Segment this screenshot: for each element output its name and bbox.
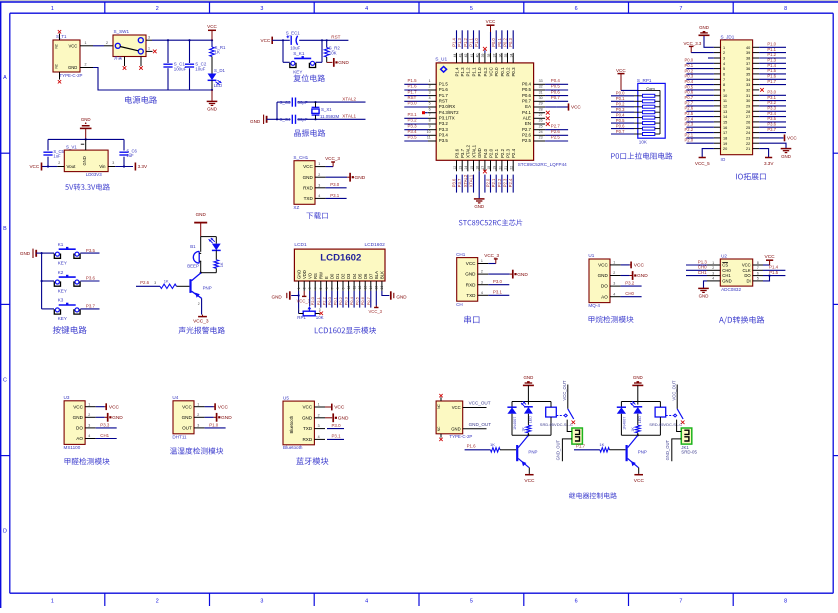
- svg-text:3: 3: [318, 183, 320, 187]
- svg-text:D7: D7: [368, 273, 373, 279]
- U2 pin4 GND: [704, 281, 708, 288]
- svg-text:18: 18: [723, 137, 727, 141]
- svg-text:U5: U5: [283, 395, 289, 400]
- svg-text:B: B: [3, 226, 7, 232]
- svg-text:P1.5: P1.5: [769, 270, 779, 275]
- svg-text:1K: 1K: [631, 427, 635, 432]
- svg-text:TXD: TXD: [303, 426, 313, 431]
- svg-text:P0.6: P0.6: [551, 89, 561, 94]
- svg-text:3: 3: [723, 57, 725, 61]
- power port GND: [107, 413, 109, 422]
- svg-text:P1.5: P1.5: [408, 78, 418, 83]
- svg-text:1: 1: [613, 261, 615, 265]
- svg-text:21: 21: [504, 166, 508, 170]
- svg-text:33: 33: [746, 83, 750, 87]
- svg-text:2: 2: [429, 85, 431, 89]
- svg-text:7: 7: [757, 266, 759, 270]
- label alarm: [179, 327, 225, 334]
- wire top XTAL2: [277, 101, 291, 103]
- svg-text:3: 3: [148, 35, 150, 39]
- svg-text:VCC_OUT: VCC_OUT: [562, 380, 567, 400]
- svg-text:10K: 10K: [639, 139, 648, 144]
- svg-text:P1.2: P1.2: [767, 52, 776, 57]
- svg-text:BLA: BLA: [374, 271, 379, 279]
- svg-text:P0.7: P0.7: [522, 99, 532, 104]
- svg-text:P3.1: P3.1: [408, 112, 418, 117]
- svg-text:P3.4: P3.4: [408, 129, 418, 134]
- svg-text:2: 2: [197, 413, 199, 417]
- net P3.3: [96, 427, 117, 429]
- svg-text:3: 3: [88, 424, 90, 428]
- svg-text:P3.4: P3.4: [439, 133, 449, 138]
- svg-text:P2.0: P2.0: [488, 148, 493, 158]
- svg-text:8: 8: [784, 6, 787, 12]
- svg-text:ADC0832: ADC0832: [721, 287, 741, 292]
- svg-text:VCC: VCC: [182, 404, 192, 409]
- JD1 pin3 stub: [708, 57, 714, 59]
- T1 top pin: [59, 34, 61, 41]
- svg-text:7: 7: [330, 287, 334, 289]
- svg-text:3: 3: [260, 6, 263, 12]
- LED branch (alarm): [215, 237, 217, 244]
- svg-text:P1.2: P1.2: [466, 67, 471, 77]
- U2 pin3 net CH1: [686, 275, 707, 277]
- svg-text:P2.7: P2.7: [685, 100, 694, 105]
- svg-text:GND: GND: [633, 375, 643, 380]
- svg-text:1: 1: [148, 47, 150, 51]
- svg-text:P3.0: P3.0: [332, 423, 342, 428]
- svg-text:3: 3: [319, 308, 321, 312]
- svg-text:P2.7: P2.7: [522, 127, 532, 132]
- power port GND (relay): [632, 384, 643, 386]
- T1 pin2 GND wire: [80, 67, 93, 69]
- JD1 pin23 to VCC: [759, 137, 783, 139]
- svg-text:9: 9: [723, 89, 725, 93]
- JD1 pin32 no-ERC: [760, 88, 764, 92]
- svg-text:VCC: VCC: [634, 263, 645, 269]
- svg-text:VCC: VCC: [302, 405, 312, 410]
- switch S_SW1: [113, 35, 146, 57]
- svg-text:P1.7: P1.7: [576, 444, 586, 449]
- svg-text:20: 20: [498, 166, 502, 170]
- svg-text:LED: LED: [529, 416, 533, 424]
- svg-text:P3.1: P3.1: [493, 290, 503, 295]
- svg-text:P0.0: P0.0: [327, 296, 332, 305]
- power port VCC (pin 38): [487, 24, 495, 26]
- svg-text:29: 29: [539, 102, 543, 106]
- svg-text:VCC_OUT: VCC_OUT: [469, 401, 491, 406]
- svg-text:CH1: CH1: [456, 252, 466, 257]
- sensor U1 MQ-4 methane: [589, 259, 610, 303]
- svg-text:VCC: VCC: [261, 38, 271, 43]
- svg-text:K2: K2: [58, 270, 64, 275]
- svg-text:GND: GND: [598, 273, 609, 278]
- svg-text:29: 29: [746, 105, 750, 109]
- svg-text:41: 41: [470, 54, 474, 58]
- svg-text:11: 11: [723, 99, 727, 103]
- svg-text:P3.1: P3.1: [332, 434, 342, 439]
- svg-text:GND: GND: [296, 270, 301, 279]
- svg-text:C: C: [3, 377, 7, 383]
- svg-text:40: 40: [476, 54, 480, 58]
- svg-text:1uF: 1uF: [126, 153, 134, 158]
- wire to K1: [42, 252, 54, 254]
- svg-text:2: 2: [156, 6, 159, 12]
- diode 1N4007: [511, 402, 513, 408]
- svg-text:P2.2: P2.2: [497, 178, 502, 187]
- svg-text:S_K1: S_K1: [293, 51, 305, 56]
- svg-text:P0.6: P0.6: [522, 93, 532, 98]
- svg-text:6: 6: [429, 107, 431, 111]
- net P3.0: [488, 284, 509, 286]
- capacitor S_C3 30pF: [291, 98, 293, 107]
- svg-text:P3.7: P3.7: [767, 127, 776, 132]
- power port GND (JD1 top): [699, 34, 710, 36]
- svg-text:3: 3: [154, 281, 156, 285]
- svg-text:9: 9: [341, 287, 345, 289]
- svg-text:4: 4: [365, 599, 368, 605]
- svg-text:XTAL1: XTAL1: [471, 144, 476, 158]
- svg-text:RXD: RXD: [466, 282, 476, 287]
- svg-text:10K: 10K: [316, 315, 324, 320]
- power port GND (pin 16): [474, 198, 485, 200]
- svg-text:P3.5: P3.5: [439, 138, 449, 143]
- svg-text:P3.0: P3.0: [493, 279, 503, 284]
- svg-text:P3.1/TX: P3.1/TX: [439, 116, 455, 121]
- svg-text:SRD-05VDC-SL-C: SRD-05VDC-SL-C: [540, 422, 573, 427]
- connector JK (relay output): [681, 428, 692, 444]
- svg-text:P3.1: P3.1: [330, 193, 340, 198]
- svg-text:44: 44: [453, 54, 457, 58]
- svg-text:VCC: VCC: [524, 478, 535, 484]
- svg-text:P3.2: P3.2: [625, 281, 635, 286]
- net GND_OUT: [463, 428, 487, 430]
- svg-text:VCC: VCC: [207, 24, 217, 29]
- svg-text:P0.5: P0.5: [616, 118, 625, 123]
- sensor U4 DHT11 temperature humidity: [173, 401, 194, 434]
- svg-text:P1.4: P1.4: [769, 265, 779, 270]
- label AD conversion: [719, 316, 764, 324]
- svg-text:P1.4: P1.4: [452, 38, 457, 47]
- svg-text:2: 2: [613, 271, 615, 275]
- power port GND: [632, 271, 634, 280]
- svg-text:XTAL2: XTAL2: [466, 144, 471, 158]
- svg-text:27: 27: [539, 113, 543, 117]
- svg-text:4: 4: [365, 6, 368, 12]
- base resistor 1K (relay): [465, 449, 491, 451]
- svg-text:PNP: PNP: [638, 450, 647, 455]
- JD1 pin1 to GND: [704, 35, 714, 47]
- net P1.0: [205, 427, 226, 429]
- svg-text:GND: GND: [338, 416, 349, 422]
- svg-text:P3.5: P3.5: [767, 116, 776, 121]
- svg-text:P2.0: P2.0: [685, 138, 694, 143]
- svg-text:13: 13: [723, 110, 727, 114]
- svg-text:4: 4: [88, 434, 90, 438]
- svg-text:25: 25: [539, 124, 543, 128]
- svg-text:3: 3: [481, 280, 483, 284]
- svg-text:P4.2: P4.2: [483, 67, 488, 77]
- svg-text:S_C1: S_C1: [174, 61, 186, 66]
- JD1 pin21 to 3.3V: [759, 149, 768, 158]
- svg-text:22: 22: [746, 142, 750, 146]
- crystal S_X1 11.0592M: [312, 106, 320, 108]
- svg-text:B1: B1: [190, 244, 196, 249]
- svg-text:P1.5: P1.5: [767, 68, 776, 73]
- svg-text:11.0592M: 11.0592M: [320, 114, 340, 119]
- power port 3.3V: [134, 163, 136, 171]
- resistor S_R1 1K: [211, 39, 213, 41]
- sensor U3 MS1100 formaldehyde: [64, 401, 85, 445]
- svg-text:1: 1: [197, 402, 199, 406]
- svg-text:P0.2: P0.2: [503, 38, 508, 47]
- svg-text:P2.4: P2.4: [685, 116, 694, 121]
- svg-text:VCC: VCC: [765, 254, 776, 260]
- svg-text:1: 1: [481, 259, 483, 263]
- svg-text:37: 37: [746, 62, 750, 66]
- connector CH1 serial: [457, 258, 478, 302]
- relay coil SRD-05VDC-SL-C: [546, 407, 557, 417]
- label P0 pullup: [611, 152, 672, 159]
- svg-text:CH: CH: [456, 302, 463, 307]
- net CH1: [96, 438, 117, 440]
- svg-text:2: 2: [303, 287, 307, 289]
- svg-text:NC: NC: [437, 426, 441, 431]
- svg-text:10: 10: [347, 286, 351, 290]
- svg-text:5: 5: [757, 277, 759, 281]
- svg-text:5: 5: [319, 287, 323, 289]
- alarm top rail: [201, 236, 217, 238]
- svg-text:ALE: ALE: [523, 116, 531, 121]
- svg-text:6: 6: [757, 271, 759, 275]
- LED (relay): [637, 402, 639, 405]
- svg-text:GND: GND: [699, 294, 709, 299]
- svg-text:SRD-05VDC-SL-C: SRD-05VDC-SL-C: [649, 422, 682, 427]
- svg-text:BEEP: BEEP: [187, 264, 199, 269]
- svg-text:CH0: CH0: [722, 268, 731, 273]
- wire to K2: [42, 280, 54, 282]
- svg-text:P1.6: P1.6: [467, 444, 477, 449]
- alarm bottom rail: [201, 272, 217, 274]
- svg-text:D2: D2: [341, 273, 346, 279]
- svg-text:P0.3: P0.3: [511, 67, 516, 77]
- svg-text:14: 14: [369, 286, 373, 290]
- base resistor 1K (alarm): [136, 285, 160, 287]
- svg-text:17: 17: [723, 131, 727, 135]
- svg-text:P3.7: P3.7: [460, 148, 465, 158]
- svg-text:P1.3: P1.3: [457, 38, 462, 47]
- svg-text:P0.1: P0.1: [497, 38, 502, 47]
- U2 pin7 net P1.4: [763, 269, 785, 271]
- svg-text:1: 1: [297, 287, 301, 289]
- svg-text:P0.1: P0.1: [685, 63, 694, 68]
- RP1 resistor P0.1: [611, 100, 634, 102]
- net P3.1: [488, 294, 509, 296]
- switch S_K1: [290, 63, 296, 68]
- wire VCC to RST: [283, 39, 290, 41]
- power port GND: [211, 90, 213, 101]
- svg-text:GND: GND: [20, 251, 31, 256]
- svg-text:PNP: PNP: [203, 286, 212, 291]
- svg-text:P3.4: P3.4: [767, 111, 776, 116]
- svg-text:1N4007: 1N4007: [513, 417, 517, 430]
- svg-text:XTAL1: XTAL1: [342, 114, 356, 119]
- svg-text:7: 7: [679, 6, 682, 12]
- svg-text:1K: 1K: [599, 442, 604, 447]
- svg-text:MS1100: MS1100: [64, 445, 81, 450]
- svg-text:GND: GND: [355, 175, 366, 181]
- svg-text:RST: RST: [331, 35, 340, 40]
- svg-text:10: 10: [723, 94, 727, 98]
- T1 pin1 to switch wire: [80, 45, 93, 47]
- label methane module: [589, 316, 634, 323]
- emitter wire to VCC (relay): [637, 467, 639, 469]
- svg-text:P0.2: P0.2: [338, 296, 343, 305]
- svg-text:RST: RST: [408, 95, 417, 100]
- svg-text:LCD1: LCD1: [294, 242, 307, 248]
- label relay control: [569, 492, 617, 498]
- svg-text:11: 11: [427, 136, 431, 140]
- svg-text:CH0: CH0: [698, 265, 707, 270]
- svg-text:P3.3: P3.3: [767, 106, 776, 111]
- svg-text:VCC: VCC: [29, 164, 39, 169]
- svg-text:P1.3: P1.3: [698, 259, 708, 264]
- svg-text:SRD-05: SRD-05: [681, 450, 697, 455]
- relay top rail: [621, 401, 660, 403]
- svg-text:U4: U4: [172, 395, 178, 400]
- svg-text:P1.4: P1.4: [454, 67, 459, 77]
- svg-text:1: 1: [51, 6, 54, 12]
- svg-text:4: 4: [613, 292, 615, 296]
- svg-text:LD03V3: LD03V3: [86, 172, 102, 177]
- capacitor S_C2 10uF: [188, 39, 190, 41]
- svg-text:VCC: VCC: [68, 43, 77, 48]
- svg-text:TXD: TXD: [466, 293, 476, 298]
- label LCD1602 module: [315, 327, 376, 334]
- svg-text:P2.3: P2.3: [505, 148, 510, 158]
- power port VCC: [105, 403, 107, 410]
- power port VCC: [214, 403, 216, 410]
- svg-text:4: 4: [318, 194, 320, 198]
- svg-text:P1.1: P1.1: [767, 47, 776, 52]
- svg-text:GND_OUT: GND_OUT: [665, 439, 670, 460]
- svg-text:16: 16: [476, 166, 480, 170]
- svg-text:P2.0: P2.0: [310, 296, 315, 305]
- svg-text:VCC_3: VCC_3: [369, 309, 383, 314]
- svg-text:CH1: CH1: [100, 433, 109, 438]
- SW1 pin1 no-connect: [146, 50, 153, 52]
- RP1 resistor P0.4: [611, 117, 634, 119]
- svg-text:KEY: KEY: [58, 288, 67, 293]
- connector TYPE-C-2P (relay power): [436, 401, 463, 434]
- svg-text:32: 32: [746, 89, 750, 93]
- net CH0: [621, 296, 642, 298]
- label dianyuandianlu: [125, 96, 157, 104]
- svg-text:P3.0: P3.0: [330, 182, 340, 187]
- label chuankou: [464, 316, 479, 324]
- svg-text:P1.0: P1.0: [474, 38, 479, 47]
- label formaldehyde module: [65, 458, 110, 465]
- svg-text:P3.6: P3.6: [452, 178, 457, 187]
- svg-text:GND: GND: [68, 65, 77, 70]
- svg-text:S_C2: S_C2: [195, 61, 207, 66]
- svg-text:6: 6: [575, 6, 578, 12]
- connector S_CH1 download port: [294, 161, 315, 205]
- svg-text:MQ-4: MQ-4: [588, 303, 600, 308]
- capacitor S_EC1 10uF (across key): [290, 36, 292, 45]
- svg-text:GND: GND: [524, 375, 534, 380]
- svg-text:GND: GND: [465, 272, 476, 277]
- svg-text:GND: GND: [517, 272, 528, 278]
- resistor 1K (relay led): [526, 425, 531, 433]
- svg-text:VCC: VCC: [466, 261, 476, 266]
- svg-text:XTAL1: XTAL1: [469, 174, 474, 187]
- svg-text:8: 8: [784, 599, 787, 605]
- net P3.2: [621, 285, 642, 287]
- svg-text:P2.1: P2.1: [494, 148, 499, 158]
- svg-text:P2.1: P2.1: [685, 132, 694, 137]
- svg-text:P0.6: P0.6: [685, 90, 694, 95]
- wire to K3: [42, 308, 54, 310]
- svg-text:P0.1: P0.1: [500, 67, 505, 77]
- svg-text:P1.4: P1.4: [767, 63, 776, 68]
- svg-text:4: 4: [481, 291, 483, 295]
- module U5 Bluetooth: [283, 401, 314, 445]
- svg-text:4: 4: [318, 435, 320, 439]
- regulator S_V1 LD03V3: [64, 150, 108, 172]
- svg-text:P3.6: P3.6: [454, 148, 459, 158]
- wire Vout: [42, 166, 58, 168]
- svg-text:1uF: 1uF: [53, 154, 61, 159]
- svg-text:4: 4: [712, 277, 714, 281]
- svg-text:P2.2: P2.2: [321, 296, 326, 305]
- svg-text:12: 12: [453, 166, 457, 170]
- svg-text:AO: AO: [601, 294, 608, 299]
- svg-text:33: 33: [539, 79, 543, 83]
- svg-text:28: 28: [746, 110, 750, 114]
- svg-text:CS: CS: [722, 263, 728, 268]
- svg-text:P0.7: P0.7: [616, 129, 625, 134]
- svg-text:4: 4: [429, 96, 431, 100]
- svg-text:GND: GND: [474, 204, 484, 209]
- svg-text:1: 1: [318, 162, 320, 166]
- svg-text:32: 32: [539, 85, 543, 89]
- wire Vin: [108, 166, 115, 168]
- svg-text:P2.6: P2.6: [685, 106, 694, 111]
- net VCC_OUT: [463, 407, 487, 409]
- svg-text:VDD: VDD: [302, 270, 307, 279]
- svg-text:VCC_3: VCC_3: [297, 298, 311, 303]
- svg-text:3: 3: [112, 161, 114, 165]
- svg-text:VCC_5: VCC_5: [695, 161, 710, 166]
- svg-text:4: 4: [723, 62, 725, 66]
- svg-text:EA: EA: [525, 104, 531, 109]
- svg-text:VCC: VCC: [571, 105, 581, 110]
- svg-text:P3.2: P3.2: [439, 121, 449, 126]
- svg-text:U3: U3: [64, 395, 70, 400]
- LCD pin2 VDD to VCC_3: [303, 291, 305, 296]
- svg-text:EN: EN: [525, 121, 531, 126]
- svg-text:A: A: [3, 75, 7, 81]
- svg-text:GND: GND: [477, 148, 482, 158]
- svg-text:VCC_3.3: VCC_3.3: [684, 41, 702, 46]
- svg-text:TYPE-C-2P: TYPE-C-2P: [60, 73, 83, 78]
- wire right drop: [321, 40, 323, 62]
- svg-text:11: 11: [353, 286, 357, 290]
- svg-text:P1.7: P1.7: [439, 93, 449, 98]
- svg-text:GND_OUT: GND_OUT: [469, 422, 492, 427]
- svg-text:34: 34: [510, 54, 514, 58]
